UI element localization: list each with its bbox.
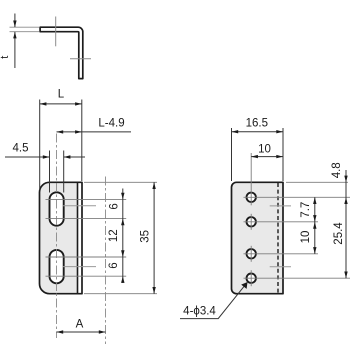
front top edge extension line	[84, 181, 157, 183]
svg-text:t: t	[0, 56, 11, 59]
svg-text:10: 10	[258, 143, 271, 155]
hole 1	[247, 193, 256, 202]
dimension 35 line	[153, 182, 155, 293]
slot 1	[50, 192, 64, 225]
dimension 4.5 extension lines	[49, 151, 51, 193]
dimension 7.7 / 10 line	[314, 197, 316, 254]
L-profile section view (top left)	[40, 27, 83, 78]
svg-text:7.7: 7.7	[300, 202, 312, 218]
dimension t line and arrows	[14, 14, 16, 28]
profile hole centerline cross	[70, 58, 91, 60]
dimension L-4.9 line	[57, 131, 132, 133]
svg-text:35: 35	[140, 230, 152, 243]
svg-text:6: 6	[108, 262, 120, 268]
front view plate body fill	[40, 182, 78, 293]
svg-text:16.5: 16.5	[246, 118, 268, 130]
gray reference mark lower (side)	[270, 266, 291, 268]
front view outline	[40, 182, 83, 293]
dimension 6/12/6 line	[122, 189, 124, 284]
front bottom edge extension line	[84, 293, 157, 295]
hole vertical center ticks	[250, 153, 252, 205]
hole 2	[247, 217, 256, 226]
svg-text:6: 6	[109, 203, 121, 209]
hole 3 centerline	[244, 253, 319, 255]
reference dash-dot line right of front view	[105, 177, 107, 345]
dimension A line	[57, 331, 106, 333]
svg-text:4-ϕ3.4: 4-ϕ3.4	[183, 306, 216, 318]
slot 2	[50, 250, 64, 283]
gray reference mark lower	[63, 266, 96, 268]
gray reference mark upper (side)	[270, 205, 291, 207]
svg-text:L-4.9: L-4.9	[98, 118, 124, 130]
slot arc centerline 4	[46, 275, 127, 277]
hole 4 centerline	[244, 277, 350, 279]
hole 1 centerline	[244, 196, 350, 198]
leader line 4-phi3.4	[180, 283, 247, 319]
side top edge extension line	[286, 181, 348, 183]
svg-text:A: A	[76, 319, 84, 331]
dimension 16.5 extension lines	[231, 128, 233, 181]
gray reference mark upper	[63, 205, 96, 207]
svg-text:25.4: 25.4	[333, 222, 345, 245]
slot vertical centerline	[56, 134, 58, 339]
front view bend tangent line	[77, 183, 79, 293]
hole 3	[247, 249, 256, 258]
hole 2 centerline	[244, 221, 319, 223]
svg-text:4.5: 4.5	[13, 143, 29, 155]
svg-text:10: 10	[300, 231, 312, 244]
dimension L line	[40, 103, 82, 105]
svg-text:4.8: 4.8	[331, 162, 343, 178]
slot arc centerline 3	[46, 256, 127, 258]
profile slot centerline cross	[55, 17, 57, 47]
svg-text:L: L	[58, 89, 65, 101]
svg-text:12: 12	[108, 229, 120, 242]
dimension t extension lines	[10, 26, 40, 28]
side view plate body	[232, 182, 284, 293]
dimension 16.5 line	[232, 131, 284, 133]
slot arc centerline 1	[46, 198, 127, 200]
slot arc centerline 2	[46, 218, 127, 220]
side view bend line (dashed)	[277, 183, 279, 293]
dimension 4.5 line	[5, 156, 50, 158]
dimension 10 (top) line	[251, 156, 283, 158]
dimension 4.8 + 25.4 line	[345, 170, 347, 278]
hole 4	[247, 274, 256, 283]
dimension L extension lines	[39, 100, 41, 191]
